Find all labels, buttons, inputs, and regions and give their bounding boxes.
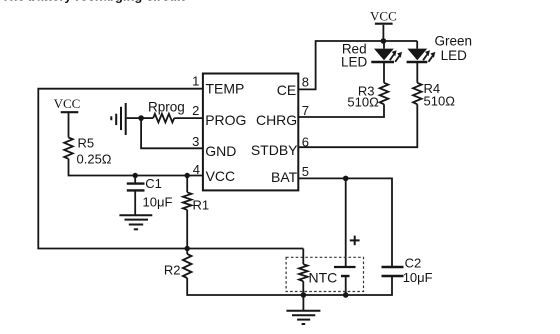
- svg-text:1: 1: [192, 73, 199, 88]
- svg-text:0.25Ω: 0.25Ω: [77, 152, 112, 167]
- svg-text:The battery recharging circuit: The battery recharging circuit: [2, 0, 186, 4]
- svg-text:510Ω: 510Ω: [424, 93, 456, 108]
- resistor R1: [183, 176, 209, 213]
- svg-text:7: 7: [302, 103, 309, 118]
- wire: R1 bottom to lower rail: [186, 210, 188, 249]
- svg-text:BAT: BAT: [271, 169, 298, 185]
- node: battery junction on BAT wire: [343, 176, 349, 182]
- LED D1 (Red): [371, 41, 402, 62]
- svg-text:R2: R2: [164, 263, 181, 278]
- partial caption text (cropped at top): [2, 0, 186, 4]
- node: VCC/LED rail junction: [381, 38, 387, 44]
- resistor R4: [413, 81, 455, 108]
- node: PROG junction: [138, 115, 144, 121]
- capacitor C2: [382, 256, 433, 285]
- node: R1 junction on VCC wire: [185, 173, 190, 178]
- svg-text:5: 5: [302, 164, 309, 179]
- wire: R2 bottom across to C2: [187, 277, 392, 295]
- resistor R3: [347, 83, 388, 110]
- svg-text:NTC: NTC: [309, 270, 338, 286]
- wire: R3 bottom to CHRG pin 7: [298, 104, 384, 117]
- svg-text:C2: C2: [405, 256, 422, 271]
- ground at bottom: [286, 295, 320, 324]
- battery BT1: [334, 236, 360, 295]
- wire: NTC top drop: [302, 249, 304, 265]
- svg-text:R1: R1: [193, 198, 210, 213]
- svg-text:TEMP: TEMP: [206, 81, 245, 97]
- resistor Rprog: [141, 100, 203, 123]
- wire: PROG junction down to GND pin 3: [141, 118, 203, 148]
- svg-text:LED: LED: [441, 48, 468, 63]
- IC U1 box: [203, 74, 298, 191]
- wire: CE pin 8 up to LED rail: [298, 41, 417, 89]
- ground under C1: [119, 191, 152, 230]
- svg-text:2: 2: [192, 103, 199, 118]
- svg-text:LED: LED: [341, 55, 368, 70]
- NTC dashed box: [286, 257, 363, 291]
- svg-text:CHRG: CHRG: [256, 112, 297, 128]
- svg-text:8: 8: [302, 74, 309, 89]
- svg-text:R5: R5: [78, 136, 95, 151]
- resistor R5: [64, 136, 112, 167]
- thermistor NTC: [299, 264, 337, 295]
- wire: R4 bottom to STDBY pin 6: [298, 104, 417, 147]
- LED D2 (Green): [407, 41, 436, 62]
- node: battery bottom junction: [343, 292, 349, 298]
- IC pin labels: [205, 81, 298, 185]
- node: NTC/ground junction: [301, 292, 307, 298]
- svg-text:VCC: VCC: [370, 9, 397, 24]
- node: R1/R2 junction on lower rail: [185, 246, 190, 251]
- VCC symbol top: [370, 9, 397, 41]
- wire: BAT pin 5 across and down to C2: [298, 178, 392, 266]
- svg-text:PROG: PROG: [205, 112, 246, 128]
- wire: red LED cathode to R3: [383, 62, 385, 83]
- svg-text:VCC: VCC: [54, 96, 81, 111]
- svg-text:C1: C1: [145, 176, 162, 191]
- svg-text:Rprog: Rprog: [148, 100, 185, 115]
- svg-text:10μF: 10μF: [403, 270, 433, 285]
- wire: R5 bottom to VCC pin 4: [69, 159, 203, 176]
- svg-text:4: 4: [193, 162, 200, 177]
- wire: green LED cathode to R4: [416, 62, 418, 83]
- resistor R2: [164, 249, 192, 279]
- signal ground at Rprog: [111, 103, 141, 135]
- svg-text:VCC: VCC: [206, 168, 236, 184]
- svg-text:10μF: 10μF: [143, 195, 173, 210]
- svg-text:510Ω: 510Ω: [347, 94, 379, 109]
- capacitor C1: [127, 176, 173, 210]
- svg-text:STDBY: STDBY: [251, 142, 298, 158]
- svg-text:Green: Green: [435, 34, 473, 49]
- VCC symbol left: [54, 96, 81, 138]
- wire: TEMP pin 1 to left rail, down and across bottom: [38, 89, 303, 249]
- pin numbers: [192, 73, 309, 178]
- svg-text:CE: CE: [277, 82, 296, 98]
- node: C1 junction on VCC wire: [133, 173, 138, 178]
- svg-text:3: 3: [192, 134, 199, 149]
- svg-text:GND: GND: [205, 143, 236, 159]
- wire: battery drop: [345, 178, 347, 266]
